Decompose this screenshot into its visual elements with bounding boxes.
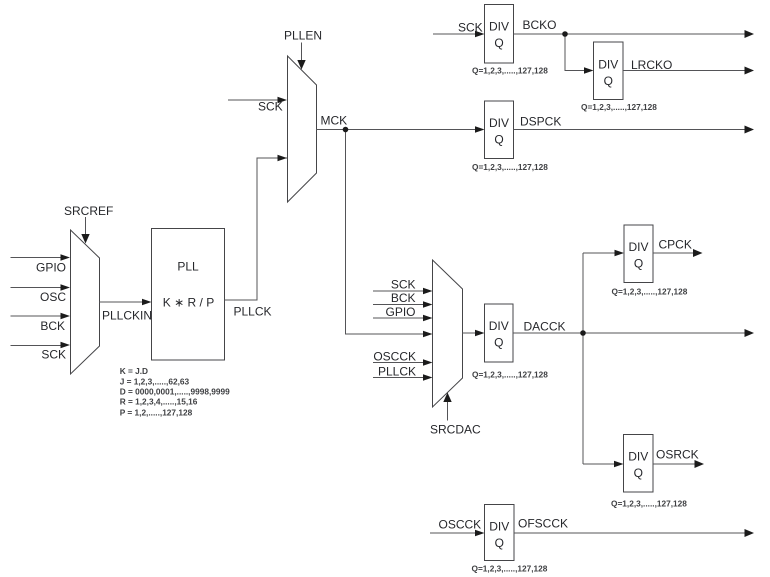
svg-text:Q=1,2,3,.....,127,128: Q=1,2,3,.....,127,128: [472, 370, 548, 380]
svg-text:Q=1,2,3,.....,127,128: Q=1,2,3,.....,127,128: [472, 162, 548, 172]
svg-text:GPIO: GPIO: [36, 261, 66, 275]
svg-text:D = 0000,0001,.....,9998,9999: D = 0000,0001,.....,9998,9999: [120, 386, 230, 396]
svg-text:J = 1,2,3,.....,62,63: J = 1,2,3,.....,62,63: [120, 376, 190, 386]
svg-text:SCK: SCK: [258, 100, 283, 114]
svg-text:R = 1,2,3,4,.....,15,16: R = 1,2,3,4,.....,15,16: [120, 396, 198, 406]
svg-text:DIV: DIV: [489, 20, 509, 34]
svg-text:Q: Q: [634, 466, 643, 480]
svg-text:Q: Q: [494, 36, 503, 50]
svg-text:OSCCK: OSCCK: [439, 518, 482, 532]
svg-text:SRCREF: SRCREF: [64, 204, 113, 218]
svg-text:DIV: DIV: [628, 240, 648, 254]
svg-text:CPCK: CPCK: [659, 238, 692, 252]
svg-text:SRCDAC: SRCDAC: [430, 423, 481, 437]
svg-text:Q=1,2,3,.....,127,128: Q=1,2,3,.....,127,128: [612, 287, 688, 297]
svg-text:PLLCKIN: PLLCKIN: [102, 309, 152, 323]
svg-text:LRCKO: LRCKO: [631, 58, 672, 72]
svg-text:BCK: BCK: [40, 319, 65, 333]
svg-text:SCK: SCK: [458, 21, 483, 35]
svg-text:DIV: DIV: [628, 450, 648, 464]
svg-text:DIV: DIV: [598, 58, 618, 72]
svg-text:MCK: MCK: [321, 114, 348, 128]
svg-text:BCKO: BCKO: [523, 18, 557, 32]
svg-text:PLL: PLL: [177, 260, 199, 274]
svg-text:DIV: DIV: [489, 520, 509, 534]
svg-text:BCK: BCK: [391, 291, 416, 305]
svg-text:Q=1,2,3,.....,127,128: Q=1,2,3,.....,127,128: [472, 66, 548, 76]
svg-text:OFSCCK: OFSCCK: [518, 517, 568, 531]
svg-text:Q: Q: [495, 536, 504, 550]
svg-text:PLLCK: PLLCK: [378, 365, 416, 379]
svg-text:GPIO: GPIO: [385, 305, 415, 319]
svg-text:DACCK: DACCK: [524, 320, 566, 334]
svg-text:K ∗ R / P: K ∗ R / P: [163, 296, 214, 310]
svg-text:K = J.D: K = J.D: [120, 366, 148, 376]
svg-text:DSPCK: DSPCK: [520, 115, 561, 129]
svg-text:P = 1,2,.....,127,128: P = 1,2,.....,127,128: [120, 408, 193, 418]
svg-text:Q=1,2,3,.....,127,128: Q=1,2,3,.....,127,128: [611, 499, 687, 509]
svg-text:OSCCK: OSCCK: [373, 350, 416, 364]
svg-text:PLLEN: PLLEN: [284, 29, 322, 43]
svg-text:Q: Q: [494, 133, 503, 147]
svg-text:Q: Q: [604, 74, 613, 88]
svg-text:OSC: OSC: [40, 290, 66, 304]
svg-text:PLLCK: PLLCK: [234, 305, 272, 319]
svg-text:Q: Q: [634, 257, 643, 271]
svg-text:SCK: SCK: [41, 348, 66, 362]
svg-text:DIV: DIV: [489, 116, 509, 130]
svg-text:SCK: SCK: [391, 278, 416, 292]
svg-text:Q=1,2,3,.....,127,128: Q=1,2,3,.....,127,128: [581, 102, 657, 112]
svg-text:DIV: DIV: [489, 319, 509, 333]
svg-text:Q=1,2,3,.....,127,128: Q=1,2,3,.....,127,128: [472, 564, 548, 574]
svg-text:Q: Q: [494, 336, 503, 350]
svg-text:OSRCK: OSRCK: [656, 448, 699, 462]
